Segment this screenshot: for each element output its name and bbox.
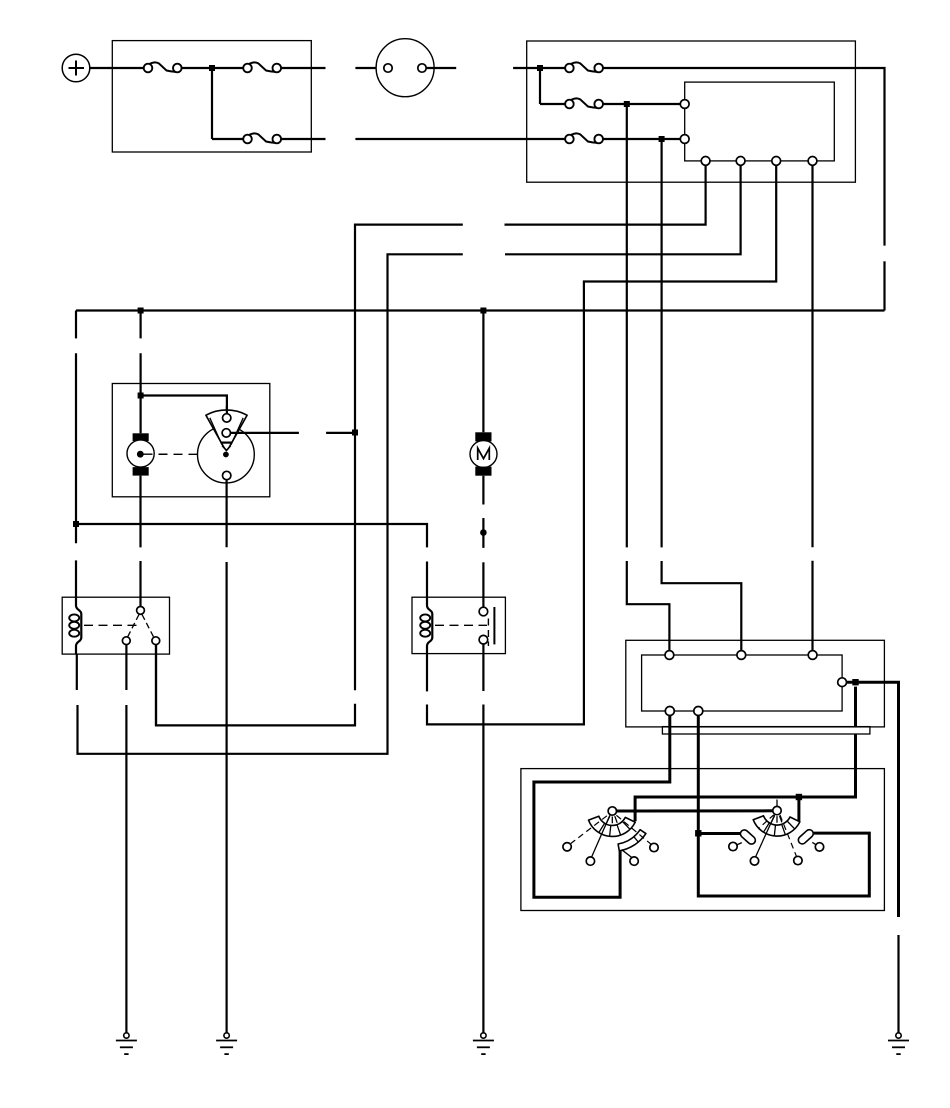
battery positive terminal <box>62 54 90 82</box>
pin 1 <box>701 157 710 166</box>
distributor center dot <box>223 452 229 458</box>
motor feed wire <box>482 311 484 433</box>
wire pin3 down left down to relay 2 coil <box>427 165 776 724</box>
heavy wire right terminal to right rail <box>847 682 899 917</box>
switch right terminal <box>838 678 847 687</box>
ignition feed into coil <box>140 353 142 433</box>
wire fuse F4 to right, exits box, corner down <box>603 68 884 246</box>
wire pin1 run left segment to vertical <box>355 225 463 691</box>
wire distributor middle contact right <box>231 432 299 434</box>
relay 1 movable contact dashed arms <box>128 615 154 638</box>
wire pin2 down and left <box>505 165 741 254</box>
pin A <box>680 100 689 109</box>
wire branch to relay 2 coil <box>76 524 427 547</box>
wiper switch 2 band ticks <box>764 821 795 836</box>
left rail mid segment <box>75 353 77 543</box>
combination switch inner box <box>642 655 843 711</box>
distributor top contact <box>223 414 231 422</box>
motor ground wire segment 2 <box>482 518 484 548</box>
connector circle <box>376 39 434 97</box>
wire junction to control unit pin B <box>662 138 681 140</box>
ground motor relay <box>473 1033 494 1054</box>
distributor rotor fan <box>206 410 247 451</box>
junction bus ignition branch <box>138 308 144 314</box>
wiper switch 2 dashed link right <box>780 815 797 857</box>
wire pinB feed upper <box>660 139 662 547</box>
wire segment to junction on pin1 wire <box>326 432 355 434</box>
heavy wire junction down to switch2 band <box>797 797 800 821</box>
wiper switch 2 right pad link <box>812 842 817 845</box>
motor letter M <box>478 448 490 460</box>
motor top block <box>475 432 491 441</box>
wire pin1 down and left <box>505 165 706 224</box>
ground distributor <box>216 1033 237 1054</box>
wire segment inside rotor fan <box>226 406 228 415</box>
heavy pivot link wire <box>617 809 773 812</box>
pin 3 <box>772 157 781 166</box>
ignition feed upper <box>140 311 142 339</box>
junction distributor branch <box>352 430 358 436</box>
relay 1 right contact <box>152 637 160 645</box>
distributor rotor bar <box>221 442 231 444</box>
relay 2 fixed contact bar <box>493 607 495 644</box>
connector left pin <box>384 64 392 72</box>
distributor bottom contact <box>223 471 231 479</box>
lower row wire to fuse box 2 <box>355 138 565 140</box>
switch terminal 2 <box>737 651 746 660</box>
motor body <box>470 441 497 468</box>
switch terminal 3 <box>808 651 817 660</box>
switch terminal 1 <box>665 651 674 660</box>
heavy wire B terminal2 down <box>697 716 700 834</box>
fuse F4 <box>565 62 603 72</box>
wiper switch 1 outer band <box>618 830 646 851</box>
fuse F6 <box>565 133 603 143</box>
wiper switch 1 terminal c <box>630 857 638 865</box>
heavy loop around switch 2 <box>698 833 869 896</box>
wiper switch 2 left pad link <box>737 843 742 845</box>
wire fuse F3 out of box <box>281 138 325 140</box>
ignition coil center dot <box>137 451 144 458</box>
relay 1 common terminal <box>137 607 145 615</box>
motor ground wire segment 1 <box>482 476 484 505</box>
wire pinA feed corner to switch terminal 1 <box>626 104 628 547</box>
wire relay2 coil feed lower through coil <box>427 562 432 654</box>
fuse F3 <box>243 133 281 143</box>
wiper switch 2 terminal a <box>729 842 737 850</box>
heavy wire A terminal1 to switch 1 <box>534 716 670 898</box>
wiper switch 1 outer band tick <box>634 837 639 842</box>
relay 2 ground wire <box>482 705 484 1033</box>
wiper switch 2 left pad <box>739 828 757 845</box>
wiper switch 1 terminal a <box>563 843 571 851</box>
junction row3 <box>659 136 665 142</box>
connector dot on motor wire <box>480 529 487 536</box>
switch bottom terminal 2 <box>694 707 703 716</box>
combination switch outer box <box>626 640 885 727</box>
wire fuse F2 out of box <box>281 67 325 69</box>
motor wire to relay 2 common <box>482 562 484 607</box>
wire relay2 coil bottom stub <box>426 654 428 692</box>
ground right rail <box>888 1033 909 1054</box>
switch bottom terminal 1 <box>665 707 674 716</box>
wire to fuse F5 <box>540 103 565 105</box>
wire junction down to row 2 <box>539 68 541 104</box>
pin B <box>680 135 689 144</box>
pin 4 <box>808 157 817 166</box>
main power bus <box>76 309 885 311</box>
relay 1 left contact wire upper <box>125 645 127 690</box>
wiper switch 1 arm marks <box>607 816 618 823</box>
wiper switch 1 contact band <box>589 816 636 836</box>
distributor rotor inner lines <box>210 418 243 451</box>
wire pin1 lower segment to relay 1 contact <box>156 645 355 725</box>
junction left rail branch <box>73 521 79 527</box>
fuse F2 <box>243 62 281 72</box>
wiper switch 2 arm stub <box>776 800 778 807</box>
wire fuse F1 to junction <box>182 67 212 69</box>
dashed link coil to distributor <box>144 453 223 455</box>
ignition box <box>112 384 269 497</box>
wiper switch 2 terminal c <box>794 856 802 864</box>
junction wiper feed <box>796 794 802 800</box>
relay 1 dashed actuation link <box>84 624 137 626</box>
wiper switch 1 terminal d <box>650 843 658 851</box>
heavy wire B to switch2 left pad <box>698 832 742 835</box>
relay 2 lower terminal wire upper <box>482 644 484 691</box>
wiper switch 2 terminal d <box>815 843 823 851</box>
wiper switch 2 pivot <box>773 806 781 814</box>
relay 2 movable contact dashed <box>487 619 489 647</box>
relay 2 box <box>412 597 505 653</box>
junction row1 fuse box 2 <box>537 65 543 71</box>
wiper switch 2 arm <box>756 815 775 857</box>
ignition coil bottom block <box>133 467 149 476</box>
relay 2 coil <box>420 614 430 636</box>
fuse F1 <box>144 62 182 72</box>
wiper switch 1 pivot <box>608 807 616 815</box>
wire into fuse box 2 <box>513 67 540 69</box>
distributor body circle <box>198 426 255 483</box>
relay 1 right contact wire <box>155 645 157 726</box>
wire distributor bottom to ground upper <box>226 480 228 548</box>
ground relay 1 contact <box>116 1033 137 1054</box>
ignition coil bottom wire <box>139 476 141 548</box>
wire pin4 down lower segment to switch unit <box>811 561 813 651</box>
wire battery to fuse box <box>90 67 144 69</box>
junction bus motor branch <box>480 308 486 314</box>
lighting switch outer box <box>521 769 885 911</box>
wire pinB feed lower to terminal 2 <box>662 561 742 651</box>
left rail upper segment <box>75 311 77 339</box>
wire continuing to connector <box>355 67 383 69</box>
wiper switch 2 contact band <box>753 816 800 836</box>
wiper switch 1 dashed link right <box>616 815 651 844</box>
relay 1 coil <box>69 614 79 636</box>
control unit box <box>685 82 835 161</box>
junction row2 <box>624 101 630 107</box>
left rail lower segment into relay 1 coil <box>76 560 81 654</box>
ignition coil top block <box>133 433 149 441</box>
wiper switch 1 terminal b <box>586 857 594 865</box>
wiper switch 1 band ticks <box>599 821 630 836</box>
wire junction to fuse F2 <box>212 67 243 69</box>
wire to distributor top <box>141 396 227 415</box>
connector strip <box>662 727 870 734</box>
relay 1 box <box>62 597 169 654</box>
wire distributor ground lower <box>226 562 228 1033</box>
wiper switch 1 dashed link left <box>571 816 607 844</box>
wire fuse F5 to junction <box>603 103 627 105</box>
wiper switch 2 terminal b <box>750 857 758 865</box>
relay 2 common terminal <box>479 607 488 616</box>
fuse F5 <box>565 98 603 108</box>
fuse box 2 <box>527 41 856 182</box>
wire junction down to lower fuse row <box>211 68 213 139</box>
relay 1 left contact wire to ground <box>125 705 127 1033</box>
wire right rail lower part to bus corner <box>883 261 885 310</box>
wiper switch 2 right pad <box>797 828 815 845</box>
wiper switch 1 band to terminal link <box>622 850 632 858</box>
relay 2 lower terminal <box>479 635 488 644</box>
wire to fuse F3 <box>212 138 243 140</box>
relay 1 common feed wire <box>139 561 141 607</box>
wiper switch 2 arm marks <box>771 816 782 823</box>
fuse box 1 <box>112 41 311 152</box>
wire fuse F6 to junction <box>603 138 661 140</box>
connector right pin <box>418 64 426 72</box>
junction wire B <box>695 830 701 836</box>
right rail dashed lower to ground <box>897 935 899 1033</box>
wire junction to fuse F4 <box>540 67 565 69</box>
heavy wire C upper through strip <box>854 687 857 727</box>
wire connector right <box>426 67 456 69</box>
pin 2 <box>736 157 745 166</box>
motor bottom block <box>475 467 491 476</box>
wire junction to control unit pin A <box>627 103 681 105</box>
wire pin2 run left to vertical <box>78 254 463 754</box>
ignition coil body <box>127 440 154 467</box>
junction right terminal <box>852 679 858 685</box>
wire relay1 coil bottom stub <box>76 654 78 690</box>
wiper switch 1 arm <box>592 815 610 857</box>
relay 2 dashed actuation link <box>435 624 487 626</box>
distributor middle contact <box>222 429 230 437</box>
wiper switch 2 dashed link left <box>759 815 774 829</box>
junction ignition box <box>138 393 144 399</box>
heavy wire C lower to wiper row <box>635 734 855 821</box>
wire pinA feed lower to terminal 1 <box>627 561 670 651</box>
wire pin4 down upper segment <box>811 165 813 547</box>
junction in fuse box 1 <box>209 65 215 71</box>
relay 1 left contact <box>122 637 130 645</box>
